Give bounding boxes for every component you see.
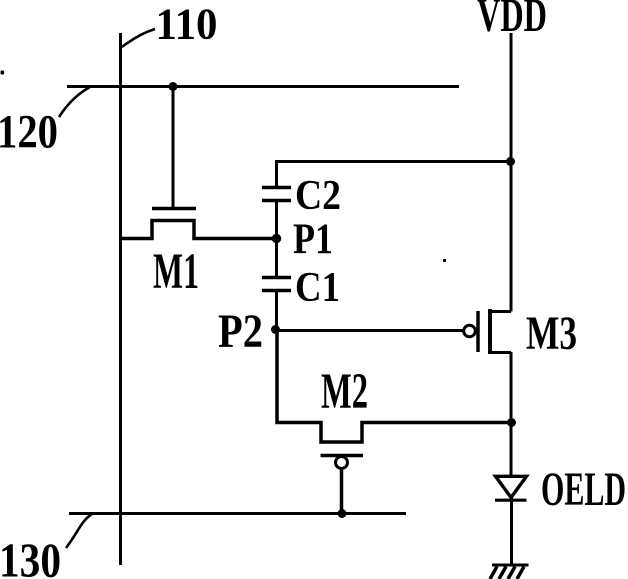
wire P2 down and M2 channel path <box>277 330 512 442</box>
transistor M3 gate bubble <box>464 325 476 337</box>
svg-text:130: 130 <box>0 533 61 579</box>
svg-text:P1: P1 <box>293 216 333 263</box>
junction node M3 source / M2 drain <box>507 418 516 427</box>
wire scan line 120 horizontal <box>67 85 459 88</box>
wire M3 gate from P2 <box>276 329 464 332</box>
transistor M3 source step <box>490 351 511 354</box>
node P2 junction <box>271 325 280 334</box>
svg-text:P2: P2 <box>218 305 263 358</box>
junction node M2 gate on line 130 <box>338 509 347 518</box>
svg-text:M3: M3 <box>526 307 577 360</box>
ground hatch 1 <box>490 567 497 579</box>
wire top branch to capacitors <box>277 160 511 163</box>
svg-text:M2: M2 <box>321 364 368 420</box>
ground hatch 2 <box>499 567 506 579</box>
junction node on scan line at M1 gate <box>169 82 178 91</box>
transistor M3 channel bar <box>488 309 492 354</box>
junction node VDD / top branch <box>506 157 515 166</box>
svg-text:OELD: OELD <box>541 463 626 516</box>
node 110 label leader <box>122 29 155 47</box>
transistor M1 gate bar <box>152 207 196 211</box>
svg-text:120: 120 <box>0 106 58 159</box>
wire M2 gate to line 130 <box>340 469 344 514</box>
capacitor C2 <box>262 188 291 201</box>
svg-text:C1: C1 <box>295 265 340 311</box>
transistor M2 gate bar <box>321 454 364 458</box>
ground bar <box>492 564 529 567</box>
node P1 junction <box>272 234 281 243</box>
stray mark left edge <box>1 71 5 75</box>
svg-text:C2: C2 <box>295 173 341 219</box>
wire OELD to ground <box>510 495 513 565</box>
node 130 label leader <box>66 514 92 548</box>
svg-text:M1: M1 <box>153 244 199 300</box>
svg-text:VDD: VDD <box>477 0 547 42</box>
transistor M1 channel path <box>121 221 278 239</box>
node 120 label leader <box>59 87 90 117</box>
capacitor C1 <box>262 278 291 291</box>
wire supply line 130 horizontal <box>69 512 406 515</box>
stray speck <box>443 259 446 262</box>
ground hatch 3 <box>508 567 515 579</box>
wire C2 to P1 <box>275 202 278 239</box>
wire capacitor branch top <box>275 160 278 187</box>
wire C1 to P2 <box>275 291 278 330</box>
wire P1 to C1 <box>275 239 278 278</box>
transistor M3 drain step <box>490 310 511 313</box>
diode OELD cathode bar <box>495 499 527 502</box>
ground hatch 4 <box>517 567 524 579</box>
transistor M2 gate bubble <box>336 457 348 469</box>
wire M1 gate from scan line <box>172 86 175 207</box>
wire data line 110 vertical <box>119 33 122 565</box>
wire VDD vertical <box>510 33 513 312</box>
transistor M3 gate bar <box>476 311 480 352</box>
diode OELD triangle <box>496 476 527 497</box>
wire M3 source down to OELD node <box>510 352 513 476</box>
svg-text:110: 110 <box>156 0 218 49</box>
